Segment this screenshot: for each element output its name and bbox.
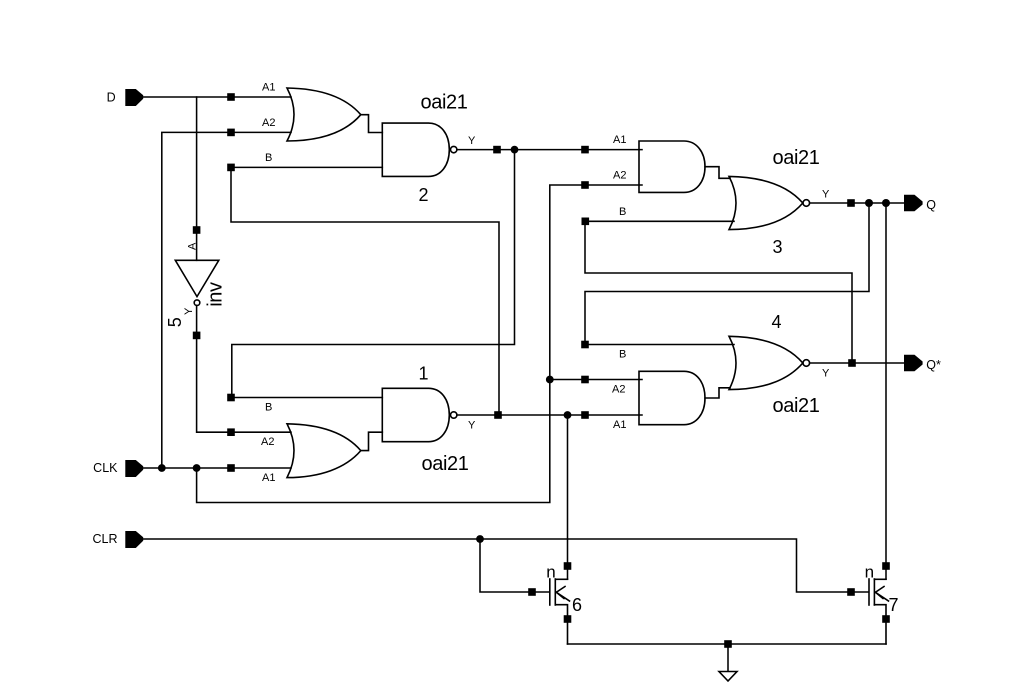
svg-text:A1: A1 [613,419,626,431]
svg-text:Q: Q [926,198,936,212]
svg-text:oai21: oai21 [422,453,469,475]
svg-text:A2: A2 [612,384,625,396]
svg-text:A1: A1 [262,472,275,484]
svg-text:oai21: oai21 [773,147,820,169]
svg-text:5: 5 [165,317,185,327]
svg-text:D: D [107,91,116,105]
svg-text:Y: Y [822,189,830,201]
svg-text:A2: A2 [613,170,626,182]
svg-text:oai21: oai21 [773,395,820,417]
svg-text:B: B [265,152,272,164]
svg-text:oai21: oai21 [421,92,468,114]
svg-text:6: 6 [572,595,582,615]
svg-text:CLR: CLR [92,532,117,546]
svg-text:n: n [865,562,874,581]
svg-text:Y: Y [822,368,830,380]
svg-text:Y: Y [468,135,476,147]
svg-text:Y: Y [468,420,476,432]
svg-text:Y: Y [183,307,195,315]
svg-text:inv: inv [205,282,227,307]
svg-text:3: 3 [773,237,783,257]
svg-text:Q*: Q* [926,358,941,372]
svg-text:n: n [546,562,555,581]
svg-text:A1: A1 [262,82,275,94]
svg-text:A: A [187,242,199,250]
svg-text:A2: A2 [261,436,274,448]
svg-text:4: 4 [772,312,782,332]
svg-text:1: 1 [419,364,429,384]
svg-text:A1: A1 [613,134,626,146]
svg-text:CLK: CLK [93,461,118,475]
svg-text:B: B [619,349,626,361]
svg-text:2: 2 [419,185,429,205]
svg-text:A2: A2 [262,117,275,129]
svg-text:7: 7 [889,595,899,615]
svg-text:B: B [619,206,626,218]
svg-text:B: B [265,402,272,414]
